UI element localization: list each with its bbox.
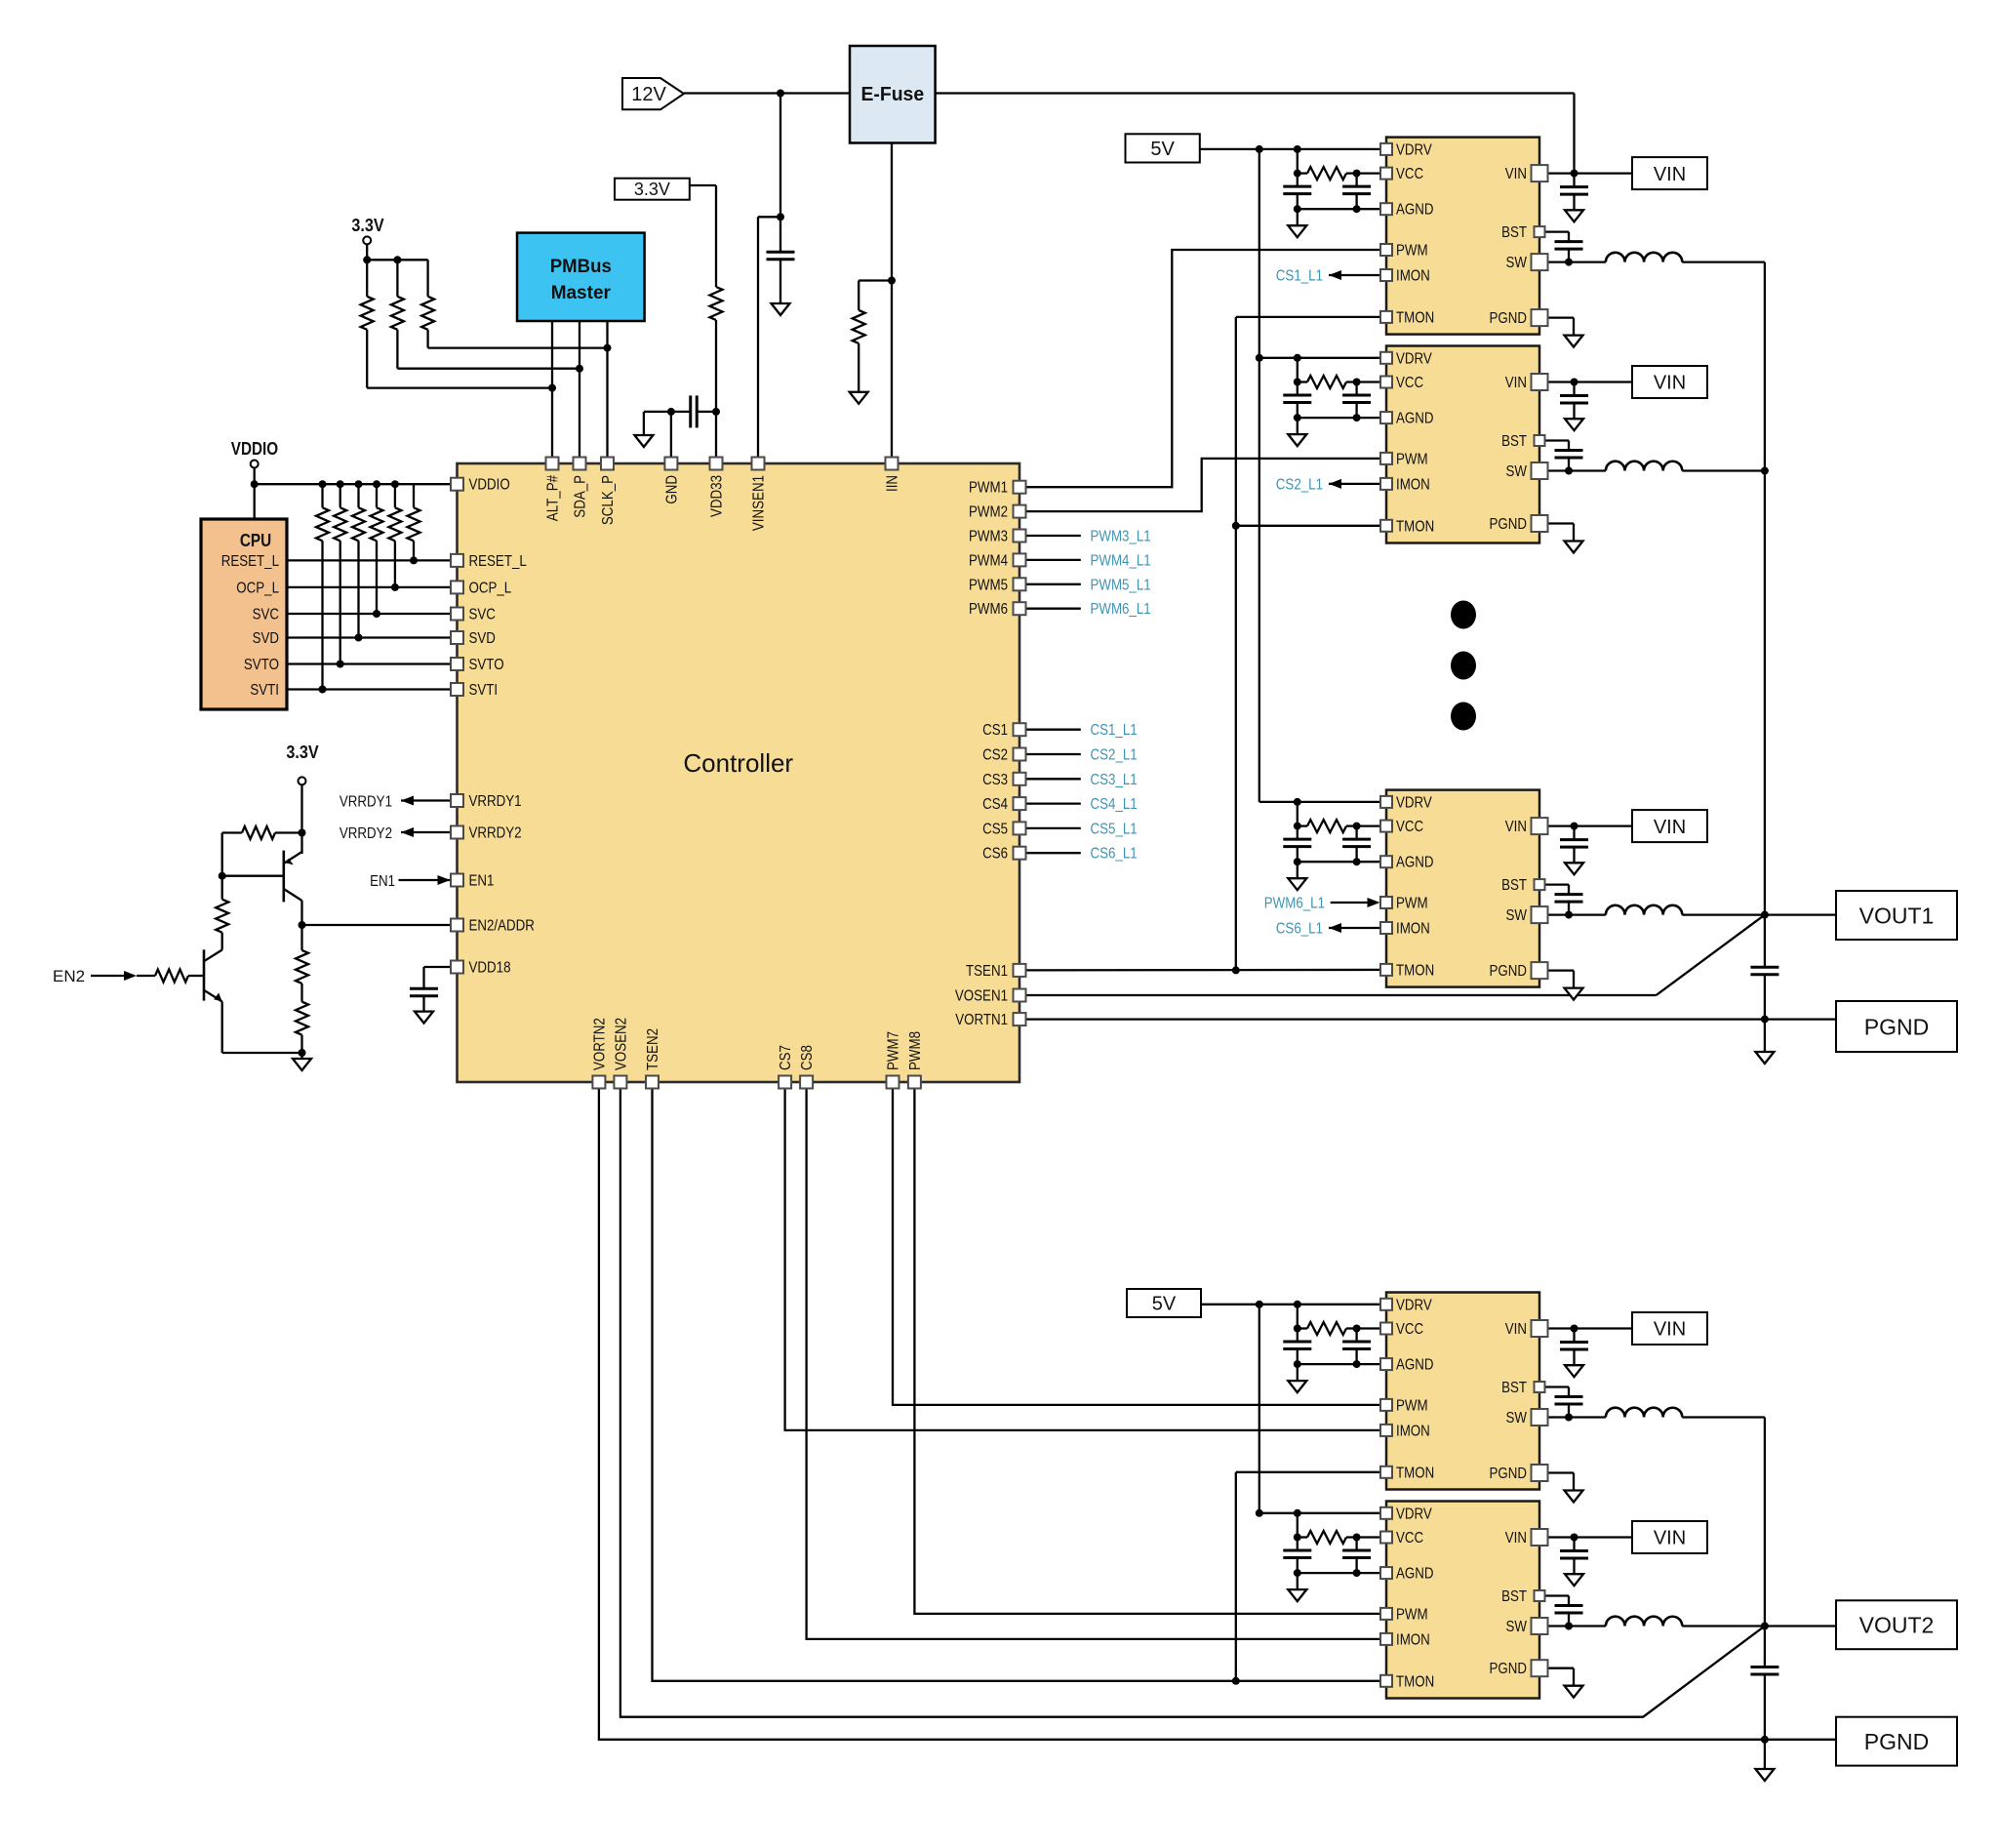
svg-text:VIN: VIN — [1654, 1319, 1686, 1341]
svg-text:OCP_L: OCP_L — [469, 580, 512, 596]
svg-text:12V: 12V — [631, 84, 666, 105]
svg-text:SVTI: SVTI — [250, 682, 279, 699]
svg-text:PWM5: PWM5 — [969, 577, 1008, 593]
svg-text:VIN: VIN — [1505, 819, 1527, 835]
svg-text:VOUT1: VOUT1 — [1859, 903, 1935, 928]
svg-text:TMON: TMON — [1396, 518, 1434, 535]
svg-text:VIN: VIN — [1505, 375, 1527, 391]
svg-text:CS7: CS7 — [778, 1045, 794, 1070]
svg-text:VIN: VIN — [1654, 817, 1686, 838]
svg-text:CS2_L1: CS2_L1 — [1276, 476, 1323, 493]
svg-text:TSEN1: TSEN1 — [966, 963, 1008, 980]
svg-text:AGND: AGND — [1396, 411, 1434, 427]
svg-text:CS6_L1: CS6_L1 — [1276, 921, 1323, 938]
svg-text:SW: SW — [1506, 1619, 1528, 1635]
svg-text:GND: GND — [663, 475, 680, 504]
svg-text:VINSEN1: VINSEN1 — [751, 475, 768, 531]
svg-text:VCC: VCC — [1396, 166, 1423, 182]
svg-text:VIN: VIN — [1505, 166, 1527, 182]
svg-text:OCP_L: OCP_L — [236, 580, 279, 596]
svg-text:VDD18: VDD18 — [469, 960, 511, 977]
svg-text:CS4: CS4 — [982, 796, 1008, 813]
svg-text:CS3_L1: CS3_L1 — [1091, 772, 1138, 788]
svg-text:CS2: CS2 — [982, 747, 1008, 764]
svg-text:E-Fuse: E-Fuse — [860, 84, 924, 105]
svg-text:PGND: PGND — [1490, 310, 1528, 327]
svg-text:CS3: CS3 — [982, 772, 1008, 788]
svg-text:SVTO: SVTO — [469, 657, 504, 673]
svg-text:PWM5_L1: PWM5_L1 — [1091, 577, 1151, 593]
svg-text:Master: Master — [551, 283, 612, 303]
svg-text:BST: BST — [1501, 1380, 1527, 1396]
svg-text:CS6: CS6 — [982, 846, 1008, 863]
svg-text:VIN: VIN — [1505, 1530, 1527, 1547]
svg-text:PWM: PWM — [1396, 451, 1428, 467]
svg-text:VRRDY1: VRRDY1 — [469, 793, 522, 810]
svg-text:VORTN1: VORTN1 — [955, 1012, 1008, 1028]
svg-text:PGND: PGND — [1864, 1729, 1930, 1754]
svg-text:VCC: VCC — [1396, 819, 1423, 835]
svg-text:SVTO: SVTO — [244, 657, 279, 673]
svg-text:EN1: EN1 — [469, 873, 495, 890]
svg-text:VIN: VIN — [1505, 1321, 1527, 1338]
svg-text:PWM3: PWM3 — [969, 529, 1008, 545]
svg-text:VCC: VCC — [1396, 1321, 1423, 1338]
svg-text:PWM: PWM — [1396, 1606, 1428, 1623]
svg-text:BST: BST — [1501, 1588, 1527, 1605]
svg-text:SVC: SVC — [469, 607, 496, 623]
svg-text:PWM2: PWM2 — [969, 504, 1008, 521]
svg-text:CS5: CS5 — [982, 821, 1008, 837]
svg-text:SDA_P: SDA_P — [573, 475, 589, 518]
svg-text:VDDIO: VDDIO — [231, 439, 278, 459]
svg-text:CS1_L1: CS1_L1 — [1091, 722, 1138, 739]
svg-text:CS1_L1: CS1_L1 — [1276, 268, 1323, 285]
svg-text:PWM7: PWM7 — [886, 1031, 902, 1070]
svg-text:SW: SW — [1506, 255, 1528, 271]
svg-text:3.3V: 3.3V — [351, 216, 383, 235]
svg-text:VRRDY2: VRRDY2 — [340, 825, 392, 842]
svg-text:Controller: Controller — [683, 748, 793, 778]
svg-text:IMON: IMON — [1396, 1423, 1430, 1439]
svg-text:SVTI: SVTI — [469, 682, 499, 699]
svg-text:VRRDY1: VRRDY1 — [340, 794, 392, 811]
svg-text:EN1: EN1 — [370, 873, 395, 890]
svg-text:TMON: TMON — [1396, 309, 1434, 326]
svg-text:IMON: IMON — [1396, 921, 1430, 938]
svg-text:5V: 5V — [1152, 1294, 1177, 1315]
svg-text:PGND: PGND — [1490, 516, 1528, 533]
svg-text:IIN: IIN — [885, 475, 901, 492]
svg-text:CS8: CS8 — [799, 1045, 816, 1070]
svg-text:EN2: EN2 — [53, 967, 85, 985]
svg-text:PGND: PGND — [1490, 963, 1528, 980]
svg-text:VOSEN2: VOSEN2 — [613, 1018, 629, 1070]
svg-text:IMON: IMON — [1396, 476, 1430, 493]
svg-text:PGND: PGND — [1864, 1014, 1930, 1039]
svg-text:PWM3_L1: PWM3_L1 — [1091, 529, 1151, 545]
svg-text:CS2_L1: CS2_L1 — [1091, 747, 1138, 764]
svg-text:VIN: VIN — [1654, 164, 1686, 185]
svg-text:PWM1: PWM1 — [969, 480, 1008, 497]
svg-text:SVD: SVD — [469, 630, 496, 647]
svg-text:BST: BST — [1501, 877, 1527, 894]
svg-text:PWM6: PWM6 — [969, 601, 1008, 618]
svg-text:SW: SW — [1506, 1410, 1528, 1426]
svg-text:PWM8: PWM8 — [907, 1031, 924, 1070]
svg-text:SVC: SVC — [253, 607, 279, 623]
svg-text:SW: SW — [1506, 907, 1528, 924]
svg-text:SCLK_P: SCLK_P — [600, 475, 617, 525]
svg-text:PWM6_L1: PWM6_L1 — [1091, 601, 1151, 618]
svg-text:PWM: PWM — [1396, 1397, 1428, 1414]
svg-text:AGND: AGND — [1396, 1566, 1434, 1583]
svg-text:VCC: VCC — [1396, 375, 1423, 391]
svg-text:AGND: AGND — [1396, 1357, 1434, 1374]
svg-text:CS6_L1: CS6_L1 — [1091, 846, 1138, 863]
svg-text:VDRV: VDRV — [1396, 1506, 1432, 1522]
svg-text:VIN: VIN — [1654, 373, 1686, 394]
svg-text:VDRV: VDRV — [1396, 350, 1432, 367]
svg-text:TMON: TMON — [1396, 962, 1434, 979]
svg-text:TMON: TMON — [1396, 1673, 1434, 1690]
svg-text:5V: 5V — [1150, 139, 1175, 160]
svg-text:PGND: PGND — [1490, 1466, 1528, 1482]
svg-text:BST: BST — [1501, 433, 1527, 450]
svg-text:PWM4_L1: PWM4_L1 — [1091, 552, 1151, 569]
svg-text:PWM4: PWM4 — [969, 552, 1008, 569]
svg-text:AGND: AGND — [1396, 855, 1434, 871]
svg-text:TMON: TMON — [1396, 1465, 1434, 1481]
svg-text:RESET_L: RESET_L — [221, 553, 280, 570]
svg-text:PMBus: PMBus — [550, 257, 612, 277]
svg-text:CS4_L1: CS4_L1 — [1091, 796, 1138, 813]
svg-text:PWM6_L1: PWM6_L1 — [1264, 896, 1325, 912]
svg-text:VDRV: VDRV — [1396, 141, 1432, 158]
svg-text:PGND: PGND — [1490, 1661, 1528, 1677]
svg-text:CS1: CS1 — [982, 722, 1008, 739]
svg-text:VIN: VIN — [1654, 1528, 1686, 1549]
svg-text:SVD: SVD — [253, 630, 279, 647]
svg-text:RESET_L: RESET_L — [469, 553, 528, 570]
svg-text:VRRDY2: VRRDY2 — [469, 825, 522, 842]
svg-text:CS5_L1: CS5_L1 — [1091, 821, 1138, 837]
svg-text:SW: SW — [1506, 463, 1528, 480]
svg-text:VORTN2: VORTN2 — [591, 1018, 608, 1070]
svg-text:VDRV: VDRV — [1396, 1297, 1432, 1313]
svg-text:PWM: PWM — [1396, 896, 1428, 912]
svg-text:VCC: VCC — [1396, 1530, 1423, 1547]
svg-text:EN2/ADDR: EN2/ADDR — [469, 918, 535, 935]
svg-text:VOSEN1: VOSEN1 — [955, 988, 1008, 1005]
svg-text:BST: BST — [1501, 224, 1527, 241]
svg-text:VDRV: VDRV — [1396, 794, 1432, 811]
svg-text:ALT_P#: ALT_P# — [545, 475, 562, 522]
svg-text:VDD33: VDD33 — [709, 475, 726, 517]
svg-text:TSEN2: TSEN2 — [645, 1028, 661, 1070]
svg-text:PWM: PWM — [1396, 243, 1428, 260]
svg-text:IMON: IMON — [1396, 268, 1430, 285]
svg-text:AGND: AGND — [1396, 202, 1434, 219]
svg-text:CPU: CPU — [240, 531, 271, 550]
svg-text:VDDIO: VDDIO — [469, 477, 510, 494]
svg-text:IMON: IMON — [1396, 1631, 1430, 1648]
svg-text:VOUT2: VOUT2 — [1859, 1613, 1935, 1638]
svg-text:3.3V: 3.3V — [634, 180, 670, 199]
svg-text:3.3V: 3.3V — [286, 743, 318, 762]
